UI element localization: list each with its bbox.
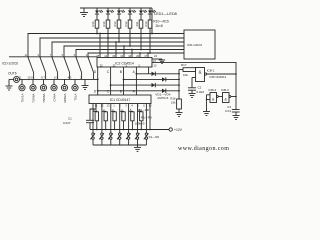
- wire diode row 1: [136, 73, 179, 75]
- svg-text:TN58A: TN58A: [42, 94, 46, 103]
- node IC2 pin-bus joins: [99, 33, 101, 35]
- svg-text:ICD-1/2IC6: ICD-1/2IC6: [2, 62, 18, 66]
- wire IC2 INH to right edge: [152, 62, 236, 109]
- svg-text:12: 12: [154, 64, 157, 68]
- node LED3-bus: [118, 41, 120, 43]
- node R4 to 12V rail: [123, 129, 125, 131]
- socket XS2: [30, 79, 36, 90]
- capacitor C2: [188, 78, 196, 94]
- resistor R6: [138, 111, 144, 129]
- node LED6-bus: [149, 52, 151, 54]
- svg-text:&: &: [199, 70, 202, 75]
- svg-text:ICB-2: ICB-2: [209, 88, 217, 92]
- resistor R10: [148, 20, 152, 53]
- wire diode row 3: [111, 84, 179, 86]
- label switch contact numbers: [19, 75, 83, 79]
- wire keypad column 7: [145, 104, 147, 133]
- svg-text:13: 13: [120, 54, 123, 58]
- svg-text:CN4A: CN4A: [52, 94, 56, 102]
- label IN row: [93, 108, 141, 112]
- svg-text:20: 20: [136, 54, 139, 58]
- switch S5: [126, 133, 131, 145]
- resistor R13: [117, 20, 121, 42]
- svg-text:18: 18: [96, 54, 99, 58]
- diode VD4: [162, 89, 166, 93]
- label IC1 bottom pin numbers: [95, 104, 152, 108]
- wire keypad column 4: [119, 104, 121, 133]
- node R6 to 12V rail: [141, 129, 143, 131]
- svg-text:16: 16: [128, 54, 131, 58]
- wire diode row 4: [98, 90, 179, 92]
- wire +12V rail: [149, 104, 151, 130]
- LED LED2: [106, 8, 114, 20]
- LED LED1: [95, 8, 103, 20]
- ground C2: [189, 94, 196, 98]
- svg-text:2AP9×4: 2AP9×4: [157, 96, 168, 100]
- svg-text:ICB-1: ICB-1: [207, 68, 215, 72]
- resistor R4: [120, 111, 126, 129]
- svg-text:S1—S8: S1—S8: [149, 135, 160, 139]
- node R3 to 12V rail: [114, 129, 116, 131]
- label IC2 bottom pin numbers: [100, 64, 153, 68]
- svg-text:T2N8A: T2N8A: [31, 94, 35, 103]
- svg-text:R15: R15: [91, 21, 95, 26]
- wire rail right drop: [151, 8, 153, 34]
- svg-text:+12V: +12V: [174, 128, 183, 132]
- connector ICD-1/2IC6: [184, 30, 215, 59]
- wire diode common: [178, 70, 180, 100]
- capacitor C3: [232, 110, 240, 116]
- switch S2: [99, 133, 104, 145]
- switch S1: [90, 133, 95, 145]
- svg-text:R12: R12: [124, 21, 128, 26]
- ground OUT6: [6, 79, 13, 90]
- resistor R17: [179, 69, 183, 71]
- terminal +12V: [169, 128, 172, 131]
- ground switch contact line: [82, 79, 89, 89]
- LED LED6: [148, 8, 156, 20]
- svg-text:2k×8: 2k×8: [156, 24, 163, 28]
- svg-text:R17: R17: [181, 63, 187, 67]
- svg-text:10k: 10k: [183, 73, 188, 77]
- label bus letters row1: [94, 70, 136, 74]
- svg-text:B: B: [120, 90, 122, 94]
- wire ICB-1 output: [207, 73, 236, 75]
- diode VD3: [152, 83, 156, 87]
- switch wiper K4: [64, 57, 70, 79]
- switch S7: [144, 133, 149, 145]
- svg-text:10 9: 10 9: [27, 75, 33, 79]
- resistor R1: [93, 111, 99, 129]
- svg-text:15: 15: [112, 54, 115, 58]
- gate ICB-1: [192, 68, 207, 82]
- socket XS3: [40, 79, 46, 90]
- svg-text:15k: 15k: [171, 101, 176, 105]
- wire wiper common line to ICD: [9, 56, 97, 58]
- ground top rail: [80, 8, 88, 17]
- svg-text:6 5: 6 5: [54, 75, 58, 79]
- svg-text:14: 14: [104, 54, 107, 58]
- switch wiper K1: [28, 57, 34, 79]
- svg-text:R14: R14: [102, 21, 106, 26]
- ground R16: [176, 109, 183, 117]
- svg-text:4 3: 4 3: [68, 75, 72, 79]
- node LED2-bus: [107, 37, 109, 39]
- svg-text:8 7: 8 7: [41, 75, 45, 79]
- svg-text:100k×9: 100k×9: [135, 122, 145, 126]
- ground C3: [233, 116, 240, 120]
- svg-text:T5LA: T5LA: [73, 94, 77, 101]
- wire ICB-2 to ICB-3: [217, 96, 219, 98]
- wire top rail: [80, 7, 152, 9]
- terminal OUT6: [9, 76, 20, 82]
- socket XS1: [19, 79, 25, 90]
- resistor R14: [106, 20, 110, 38]
- svg-text:T5V1A: T5V1A: [20, 94, 24, 103]
- switch S6: [135, 133, 140, 145]
- op IC1 CD40147 box: [89, 95, 151, 104]
- wire IC2 data lines DCBA: [98, 67, 149, 95]
- wire keypad column 3: [110, 104, 112, 133]
- op IC2 CD4514 box: [97, 58, 152, 68]
- wire keypad common: [93, 144, 146, 146]
- svg-text:R11: R11: [135, 21, 139, 26]
- wire bus line 3: [52, 42, 184, 57]
- switch wiper K3: [52, 57, 58, 79]
- diode VD2: [162, 77, 166, 81]
- switch wiper K6: [88, 57, 94, 79]
- gate ICB-3: [223, 93, 230, 103]
- gate ICB-2: [210, 93, 217, 103]
- switch wiper K2: [40, 57, 46, 79]
- socket XS4: [51, 79, 57, 90]
- wire keypad column 6: [137, 104, 139, 133]
- svg-text:ICB CD4011: ICB CD4011: [210, 75, 227, 79]
- resistor R2: [102, 111, 108, 129]
- wire keypad column 1: [92, 104, 94, 133]
- LED LED3: [117, 8, 125, 20]
- svg-text:MW2A: MW2A: [63, 94, 67, 103]
- node rail-bus: [151, 33, 153, 35]
- wire bus line 2: [40, 38, 184, 57]
- node R2 to 12V rail: [105, 129, 107, 131]
- LED LED5: [139, 8, 147, 20]
- resistor R5: [129, 111, 134, 129]
- wire ICB-2 input tie: [207, 95, 211, 112]
- socket XS6: [72, 79, 78, 90]
- switch S4: [117, 133, 122, 145]
- wire keypad column 5: [128, 104, 130, 133]
- wire IC2 top pin drops: [100, 34, 148, 58]
- label IC2 top pin numbers: [96, 54, 147, 58]
- switch S3: [108, 133, 113, 145]
- node R5 to 12V rail: [132, 129, 134, 131]
- resistor R3: [111, 111, 117, 129]
- svg-text:22: 22: [100, 64, 103, 68]
- resistor R15: [95, 20, 99, 34]
- diode VD1: [152, 72, 156, 76]
- node LED4-bus: [129, 45, 131, 47]
- svg-text:&: &: [224, 97, 227, 101]
- label switch upper contact numbers: [25, 54, 88, 57]
- svg-text:24: 24: [154, 54, 157, 58]
- svg-text:IC1 CD40147: IC1 CD40147: [110, 98, 131, 102]
- wire bus line 4: [64, 46, 184, 57]
- socket XS5: [61, 79, 67, 90]
- svg-text:13: 13: [107, 104, 110, 108]
- svg-text:B: B: [120, 70, 122, 74]
- ground keypad: [134, 145, 141, 151]
- node LED5-bus: [140, 49, 142, 51]
- svg-text:0.047: 0.047: [63, 121, 71, 125]
- switch wiper K5: [76, 57, 82, 79]
- wire bus line 6: [88, 53, 184, 57]
- svg-text:R13: R13: [113, 21, 117, 26]
- wire ICB-3 output: [229, 96, 231, 98]
- wire keypad column 2: [101, 104, 103, 133]
- svg-text:R10: R10: [144, 21, 148, 26]
- ground ICB-2 input: [203, 112, 210, 116]
- capacitor C1: [86, 104, 96, 130]
- wire bus line 1: [28, 34, 184, 57]
- resistor R12: [128, 20, 132, 46]
- svg-text:17: 17: [144, 54, 147, 58]
- resistor R16: [177, 99, 182, 109]
- svg-text:0.022: 0.022: [197, 90, 205, 94]
- wire bus line 5: [76, 50, 184, 57]
- node R1 to 12V rail: [96, 129, 98, 131]
- svg-text:ICD-1/2IC6: ICD-1/2IC6: [187, 43, 202, 47]
- wire switch contact line: [20, 78, 98, 80]
- node LED1-bus: [96, 33, 98, 35]
- svg-text:0.01: 0.01: [225, 109, 231, 113]
- svg-text:LED1—LED8: LED1—LED8: [154, 12, 177, 16]
- resistor R11: [139, 20, 143, 50]
- svg-text:&: &: [212, 97, 215, 101]
- label bus letters row2: [94, 90, 136, 94]
- ground IC2 pins24 12: [152, 59, 165, 63]
- wire diode row 2: [124, 78, 180, 80]
- svg-text:ICB-3: ICB-3: [221, 88, 229, 92]
- svg-text:R10—R15: R10—R15: [153, 20, 169, 24]
- LED LED4: [128, 8, 136, 20]
- svg-text:OUT6: OUT6: [8, 72, 17, 76]
- svg-text:21: 21: [113, 64, 116, 68]
- svg-text:www.diangon.com: www.diangon.com: [178, 146, 229, 152]
